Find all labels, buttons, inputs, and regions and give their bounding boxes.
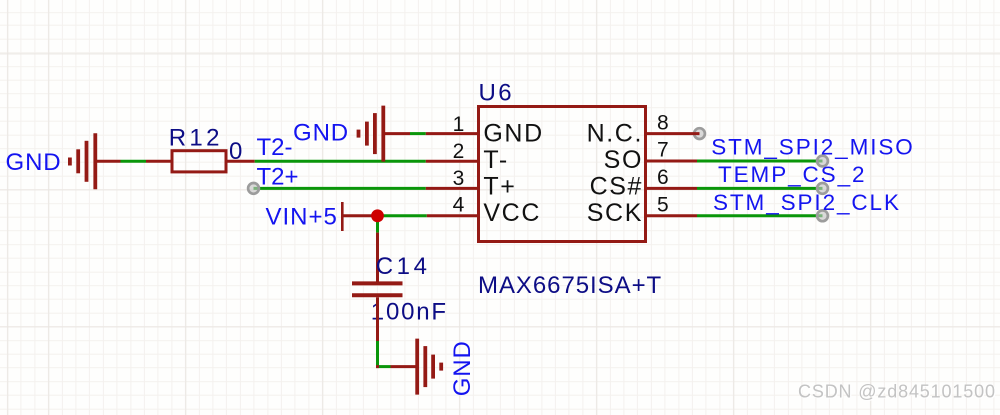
wire: top GND stub (red)	[383, 132, 410, 135]
svg-text:T2+: T2+	[257, 164, 299, 191]
svg-text:CSDN @zd845101500: CSDN @zd845101500	[798, 382, 996, 402]
watermark	[798, 382, 997, 403]
svg-text:CS#: CS#	[590, 173, 643, 201]
resistor R12	[172, 151, 226, 172]
bottom ground symbol	[417, 339, 441, 395]
svg-text:C14: C14	[376, 253, 431, 280]
wire: green vertical below junction	[376, 216, 379, 233]
left ground symbol	[70, 133, 95, 189]
T2+ end dot (gray)	[248, 183, 259, 194]
svg-text:5: 5	[657, 194, 669, 217]
pin 3 stub	[426, 187, 479, 190]
wire end dot at corner	[376, 365, 379, 368]
svg-text:STM_SPI2_CLK: STM_SPI2_CLK	[713, 190, 901, 215]
svg-text:SO: SO	[604, 146, 643, 174]
MISO end dot	[817, 156, 828, 167]
svg-text:TEMP_CS_2: TEMP_CS_2	[718, 162, 866, 187]
svg-text:GND: GND	[6, 149, 62, 176]
svg-text:8: 8	[657, 111, 669, 134]
wire: resistor left pin	[146, 160, 171, 163]
pin 5 stub	[646, 214, 698, 217]
svg-text:R12: R12	[169, 125, 223, 152]
pin 6 stub	[646, 187, 698, 190]
wire: resistor right pin	[228, 160, 255, 163]
svg-text:2: 2	[453, 140, 465, 163]
pin 1 stub	[426, 132, 479, 135]
svg-text:GND: GND	[449, 340, 476, 396]
svg-text:1: 1	[453, 113, 465, 136]
wire: green segment pin4	[372, 214, 427, 217]
svg-text:N.C.: N.C.	[587, 120, 643, 148]
svg-text:VCC: VCC	[483, 199, 541, 227]
wire: red horizontal to bottom GND	[391, 365, 416, 368]
wire: net T2- (green)	[255, 160, 426, 163]
svg-text:T-: T-	[483, 146, 508, 174]
svg-text:6: 6	[657, 166, 669, 189]
wire: net STM_SPI2_MISO	[697, 160, 823, 163]
svg-text:3: 3	[453, 167, 465, 190]
svg-text:T2-: T2-	[257, 134, 293, 161]
svg-text:GND: GND	[483, 120, 543, 148]
capacitor C14	[352, 283, 403, 295]
svg-text:STM_SPI2_MISO: STM_SPI2_MISO	[711, 135, 915, 160]
svg-text:7: 7	[657, 139, 669, 162]
wire: net STM_SPI2_CLK	[697, 214, 823, 217]
junction dot	[371, 209, 384, 222]
wire: left GND stub (red)	[95, 160, 120, 163]
svg-text:GND: GND	[293, 120, 349, 147]
svg-text:U6: U6	[479, 80, 514, 107]
svg-text:4: 4	[453, 194, 465, 217]
wire: green vertical bottom	[376, 341, 379, 368]
pin 4 stub	[427, 214, 479, 217]
wire: green horizontal bottom	[376, 365, 391, 368]
top ground symbol	[359, 106, 384, 162]
pin 2 stub	[426, 160, 479, 163]
wire: green segment pin1	[410, 132, 426, 135]
CLK end dot	[817, 210, 828, 221]
wire: VIN red segment	[343, 214, 372, 217]
wire: red vertical below cap	[376, 297, 379, 341]
svg-text:T+: T+	[483, 173, 516, 201]
VIN+5 power bar	[341, 202, 344, 231]
IC U6 body	[479, 107, 646, 242]
pin 8 end dot	[694, 128, 705, 139]
TEMP_CS_2 end dot	[817, 183, 828, 194]
wire: red vertical to cap	[376, 233, 379, 282]
svg-text:VIN+5: VIN+5	[266, 204, 338, 231]
svg-text:SCK: SCK	[587, 199, 643, 227]
wire: left green segment	[121, 160, 147, 163]
pin 7 stub	[646, 160, 698, 163]
pin 8 stub	[646, 132, 700, 135]
wire: net T2+ (green)	[254, 187, 426, 190]
svg-text:100nF: 100nF	[371, 298, 448, 325]
wire: net TEMP_CS_2	[697, 187, 823, 190]
svg-text:MAX6675ISA+T: MAX6675ISA+T	[478, 272, 662, 299]
